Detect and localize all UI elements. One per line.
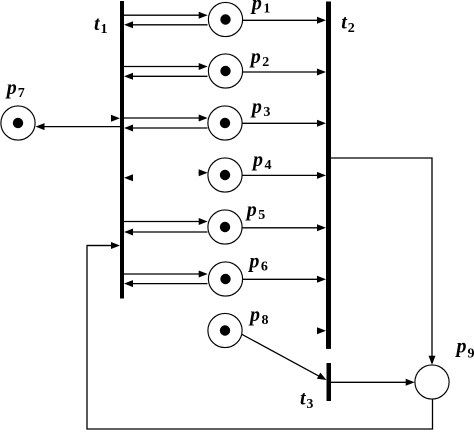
svg-text:p: p <box>245 199 257 221</box>
svg-text:7: 7 <box>18 86 25 101</box>
svg-text:p: p <box>250 96 262 118</box>
svg-text:4: 4 <box>265 158 272 173</box>
svg-text:p: p <box>250 0 262 15</box>
svg-text:8: 8 <box>262 313 269 328</box>
svg-text:p: p <box>248 304 260 326</box>
svg-text:2: 2 <box>262 55 269 70</box>
svg-text:p: p <box>455 335 467 357</box>
svg-text:p: p <box>5 77 17 99</box>
svg-text:5: 5 <box>258 208 265 223</box>
svg-text:1: 1 <box>101 22 108 37</box>
svg-text:2: 2 <box>348 21 355 36</box>
svg-text:p: p <box>251 149 263 171</box>
svg-text:6: 6 <box>261 260 268 275</box>
svg-text:9: 9 <box>468 346 474 361</box>
svg-text:p: p <box>249 46 261 68</box>
svg-text:1: 1 <box>263 2 270 17</box>
svg-text:p: p <box>247 251 259 273</box>
svg-text:3: 3 <box>306 397 313 412</box>
svg-text:3: 3 <box>263 105 270 120</box>
